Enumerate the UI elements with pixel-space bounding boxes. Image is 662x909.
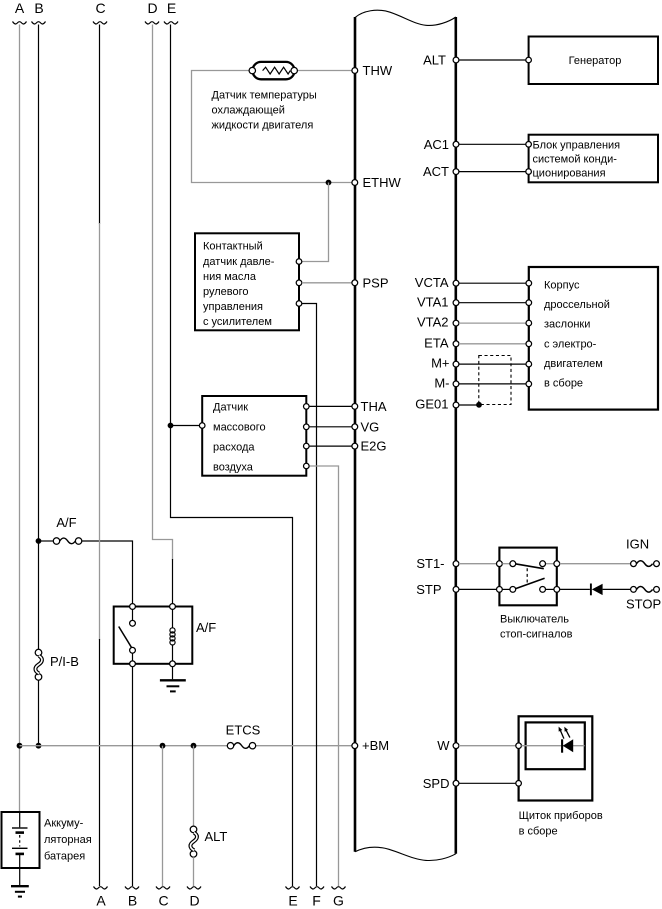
break IGN	[631, 561, 637, 567]
svg-text:VG: VG	[361, 419, 380, 434]
node ETHW junction	[326, 180, 332, 186]
break symbol bottom E	[286, 887, 300, 889]
node B/bus junction	[36, 743, 42, 749]
ground relay	[160, 679, 186, 681]
svg-text:ACT: ACT	[423, 164, 449, 179]
switch pins left edge	[497, 561, 503, 567]
svg-text:E2G: E2G	[361, 439, 387, 454]
LED indicator	[561, 739, 563, 752]
switch lever STP	[516, 578, 545, 588]
switch contacts STP row	[510, 587, 516, 593]
wire MAF left pin branch	[171, 425, 200, 427]
pin ETHW	[352, 180, 358, 186]
svg-text:ALT: ALT	[205, 829, 228, 844]
ECU band right border	[454, 17, 457, 854]
wire E2G	[309, 445, 352, 447]
switch inner wires	[502, 563, 510, 565]
PS box pin3	[296, 301, 302, 307]
svg-text:GE01: GE01	[415, 397, 448, 412]
svg-text:ALT: ALT	[423, 53, 446, 68]
pin +BM	[352, 743, 358, 749]
wire W inside panel (gray)	[521, 745, 584, 747]
break STOP	[631, 587, 637, 593]
svg-text:D: D	[189, 893, 199, 909]
pin ALT	[453, 57, 459, 63]
svg-text:THW: THW	[363, 63, 393, 78]
instrument panel outer box	[519, 716, 593, 800]
relay switch lever	[119, 627, 132, 649]
shield dashed box	[479, 356, 511, 405]
wire ACT	[459, 171, 526, 173]
wire ST1- (gray)	[459, 563, 497, 565]
pin THW	[352, 68, 358, 74]
wire M-	[459, 383, 526, 385]
wire bus +BM (gray)	[20, 745, 228, 747]
node bus/bottom-D	[191, 743, 197, 749]
svg-text:Щиток приборовв сборе: Щиток приборовв сборе	[519, 810, 603, 838]
node E / MAF branch	[168, 423, 174, 429]
svg-text:PSP: PSP	[363, 275, 389, 290]
wire bottom-D upper (gray)	[193, 746, 195, 827]
pin M-	[453, 381, 459, 387]
AC box pin AC1	[526, 142, 532, 148]
svg-text:A/F: A/F	[56, 515, 76, 530]
throttle body box	[529, 267, 658, 410]
wire M+	[459, 363, 526, 365]
MAF pin4	[304, 463, 310, 469]
break symbol top E	[164, 22, 178, 24]
wire ALT	[459, 59, 526, 61]
wire E vertical	[171, 25, 293, 887]
pin GE01	[453, 402, 459, 408]
break symbol bottom D	[187, 887, 201, 889]
svg-text:THA: THA	[361, 399, 387, 414]
node B / AF fuse junction	[36, 538, 42, 544]
panel pin SPD	[516, 781, 522, 787]
relay pin top-right	[170, 604, 176, 610]
MAF pin VG	[304, 424, 310, 430]
svg-text:ETCS: ETCS	[226, 723, 261, 738]
fuse A/F symbol	[53, 538, 59, 544]
stop lamp switch box	[499, 548, 556, 606]
AC amplifier box	[529, 135, 658, 183]
battery box	[2, 812, 40, 868]
break symbol top A	[13, 22, 27, 24]
svg-text:C: C	[158, 893, 168, 909]
pin VTA2	[453, 320, 459, 326]
wire W (gray)	[459, 745, 516, 747]
instrument panel inner box	[526, 722, 585, 769]
switch lever ST1-	[516, 564, 544, 569]
wire B to A/F fuse	[39, 540, 54, 542]
wire relay to bottom-B	[132, 667, 134, 886]
wire STP to diode	[560, 588, 590, 590]
switch gang dashed link	[526, 568, 528, 583]
pin SPD	[453, 780, 459, 786]
wire C middle gray	[99, 223, 101, 640]
AC box pin ACT	[526, 169, 532, 175]
thermistor capsule (coolant temp sensor)	[253, 62, 295, 79]
svg-text:Аккуму-ляторнаябатарея: Аккуму-ляторнаябатарея	[44, 818, 92, 863]
svg-text:G: G	[333, 893, 344, 909]
svg-text:W: W	[437, 738, 450, 753]
pin W	[453, 743, 459, 749]
mass air flow sensor box	[202, 396, 306, 476]
relay pin top-left	[130, 604, 136, 610]
wire VTA2 (gray)	[459, 322, 526, 324]
wire D to relay coil pin	[172, 559, 174, 604]
relay switch contact	[132, 609, 134, 620]
pin STP	[453, 587, 459, 593]
svg-text:Датчик температурыохлаждающейж: Датчик температурыохлаждающейжидкости дв…	[212, 90, 317, 132]
svg-text:ETHW: ETHW	[363, 175, 402, 190]
relay ground wire	[172, 667, 174, 680]
break symbol bottom A	[94, 887, 108, 889]
svg-text:C: C	[95, 0, 105, 16]
generator box	[529, 37, 658, 85]
svg-text:Выключательстоп-сигналов: Выключательстоп-сигналов	[500, 614, 573, 641]
pin E2G	[352, 443, 358, 449]
svg-text:ST1-: ST1-	[416, 556, 444, 571]
svg-text:VTA1: VTA1	[417, 294, 449, 309]
wire A/F fuse to relay	[82, 541, 133, 604]
svg-text:AC1: AC1	[424, 137, 449, 152]
pin ACT	[453, 169, 459, 175]
ECU torn top edge	[355, 10, 456, 25]
MAF pin THA	[304, 404, 310, 410]
wire diode to STOP	[603, 588, 631, 590]
svg-text:VCTA: VCTA	[415, 275, 449, 290]
pin VCTA	[453, 280, 459, 286]
pin ST1-	[453, 561, 459, 567]
break symbol top C	[93, 22, 107, 24]
switch pins right edge	[554, 561, 560, 567]
wire to IGN (gray)	[560, 563, 631, 565]
wire ETA (gray)	[459, 343, 526, 345]
throttle pins	[526, 280, 532, 286]
svg-text:A: A	[96, 893, 106, 909]
svg-text:+BM: +BM	[362, 738, 389, 753]
wire C upper black	[99, 25, 101, 225]
wire bottom-C (gray)	[162, 746, 164, 886]
wire GE01 stub	[459, 404, 479, 406]
svg-text:SPD: SPD	[423, 776, 450, 791]
relay coil	[172, 609, 174, 628]
svg-text:F: F	[312, 893, 321, 909]
break symbol bottom C	[156, 887, 170, 889]
fusible link ALT symbol	[190, 826, 197, 833]
wire A vertical (gray)	[19, 25, 21, 813]
PS box pin2 (PSP)	[296, 280, 302, 286]
break symbol top D	[145, 22, 159, 24]
wire MAF pin4 to bottom-G (gray)	[309, 466, 338, 886]
battery ground wire	[19, 855, 21, 886]
pin ETA	[453, 341, 459, 347]
relay pin bottom-left	[130, 661, 136, 667]
switch contacts ST1- row	[510, 561, 516, 567]
pin THA	[352, 404, 358, 410]
MAF pin E2G	[304, 443, 310, 449]
generator pin	[526, 57, 532, 63]
wire C lower black to bottom connector A	[99, 639, 101, 886]
break symbol bottom G	[332, 887, 346, 889]
svg-text:D: D	[147, 0, 157, 16]
break symbol bottom F	[310, 887, 324, 889]
fuse ETCS symbol	[227, 743, 233, 749]
ECU torn bottom edge	[355, 847, 456, 860]
diode (cathode left)	[590, 584, 592, 596]
relay A/F box	[114, 607, 193, 664]
ECU band left border	[354, 17, 357, 852]
svg-text:A: A	[15, 0, 25, 16]
wire bottom-D lower (gray)	[193, 857, 195, 886]
wire SPD	[459, 782, 516, 784]
pin VG	[352, 424, 358, 430]
svg-text:M-: M-	[434, 376, 449, 391]
svg-text:B: B	[128, 893, 137, 909]
pin AC1	[453, 141, 459, 147]
wire PSP (gray)	[302, 282, 352, 284]
LED arrows	[560, 730, 564, 739]
svg-text:P/I-B: P/I-B	[50, 654, 79, 669]
wire PS pin3 to bottom-F	[302, 304, 317, 887]
pin VTA1	[453, 300, 459, 306]
wire STP	[459, 588, 497, 590]
svg-text:A/F: A/F	[196, 620, 216, 635]
wire AC1	[459, 143, 526, 145]
relay pin bottom-right	[170, 661, 176, 667]
break symbol bottom B	[125, 887, 139, 889]
wire VG	[309, 426, 352, 428]
pin PSP	[352, 280, 358, 286]
svg-text:E: E	[167, 0, 176, 16]
panel pin W	[516, 743, 522, 749]
svg-text:Генератор: Генератор	[569, 55, 622, 67]
svg-text:STP: STP	[416, 582, 441, 597]
wire THW sensor loop (gray)	[192, 71, 353, 183]
pin M+	[453, 361, 459, 367]
svg-text:IGN: IGN	[626, 537, 649, 552]
power steering oil pressure switch box	[195, 233, 299, 330]
wire THA	[309, 405, 352, 407]
node bus/bottom-C	[160, 743, 166, 749]
wire VCTA	[459, 282, 526, 284]
wire ETHW junction to PS pin1 (gray)	[302, 183, 329, 262]
break symbol top B	[32, 22, 46, 24]
wire B lower to bus	[38, 680, 40, 746]
svg-text:M+: M+	[431, 356, 449, 371]
wire VTA1	[459, 302, 526, 304]
wire D vertical (gray) with jog	[153, 25, 173, 561]
wire B vertical upper	[38, 25, 40, 650]
fusible link P/I-B symbol	[35, 649, 42, 656]
svg-text:VTA2: VTA2	[417, 315, 449, 330]
node GE01 shield	[476, 402, 482, 408]
svg-text:ETA: ETA	[424, 335, 449, 350]
resistor zigzag THW	[263, 67, 291, 74]
svg-text:STOP: STOP	[626, 597, 661, 612]
ground battery	[11, 885, 29, 887]
svg-text:E: E	[288, 893, 297, 909]
PS box pin1	[296, 259, 302, 265]
MAF left pin	[199, 423, 205, 429]
node A/bus junction	[17, 743, 23, 749]
svg-text:B: B	[34, 0, 43, 16]
battery cells	[19, 812, 21, 827]
